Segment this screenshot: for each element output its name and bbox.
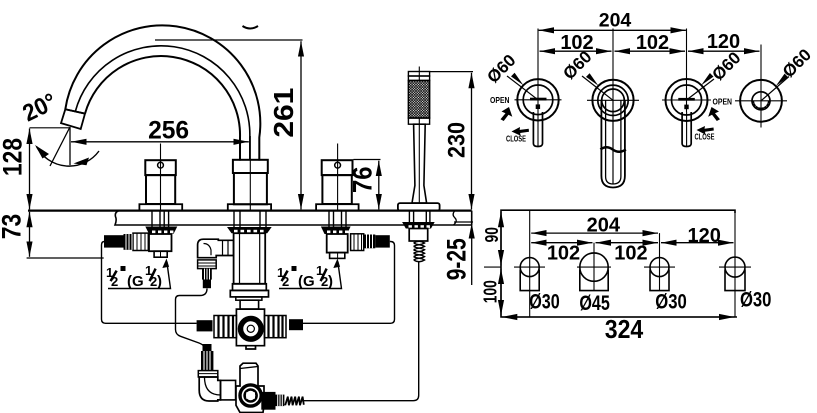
ext line c3 (686, 29, 688, 113)
right valve body below deck (327, 234, 348, 253)
spout arc inner (85, 56, 240, 161)
c1 centerline vertical (529, 210, 531, 317)
dim 204 bottom view (531, 232, 658, 234)
Ø60 leader 3 (687, 48, 745, 100)
ext line c1 (537, 29, 539, 113)
mixing tee left black block (197, 320, 213, 331)
small breve mark above spout (243, 26, 259, 29)
spout column flange (228, 204, 271, 210)
dim 256 line (71, 141, 249, 143)
wire: right supply down to tee right (303, 242, 395, 324)
left valve knurled collar (124, 234, 134, 250)
spout column side elbow (198, 239, 234, 258)
dim 102 102 120 line (540, 50, 612, 52)
centerline tick left of rect (484, 266, 501, 268)
dim 73 line (29, 212, 31, 257)
hand shower handle (412, 124, 427, 203)
Ø60 leader 1 (483, 51, 538, 100)
svg-text:Ø30: Ø30 (655, 290, 687, 313)
hand shower head cap bands (408, 72, 429, 77)
dim 76 line (378, 161, 380, 210)
dim 76 extension line (354, 159, 381, 161)
left handle flange (139, 204, 182, 210)
spout column centerline (249, 136, 251, 211)
mixing tee left nut group (214, 316, 236, 338)
right handle body (322, 175, 351, 204)
dim 204 top line (539, 29, 686, 31)
below-deck shank lines: left handle (152, 211, 169, 227)
spout column lower body below deck (234, 233, 266, 284)
svg-text:120: 120 (688, 225, 721, 247)
label underline and leader (108, 262, 171, 289)
nozzle tip vertical extension (69, 127, 71, 165)
OPEN CLOSE marks c1 (490, 95, 529, 144)
svg-text:): ) (157, 273, 162, 290)
spout arc middle line (75, 46, 250, 160)
svg-text:120: 120 (707, 31, 740, 53)
svg-text:Ø45: Ø45 (579, 292, 610, 315)
hole c1 (514, 258, 545, 291)
right supply fitting (black) (375, 235, 390, 247)
svg-text:100: 100 (481, 280, 501, 303)
svg-text:CLOSE: CLOSE (506, 134, 526, 144)
circle c3 (right handle top view) (662, 79, 711, 147)
mixing tee right nut group (265, 316, 287, 338)
below-deck shank lines: right handle (329, 211, 346, 227)
svg-text:102: 102 (560, 32, 593, 54)
elbow knurled nipple (202, 269, 212, 280)
left handle cap (145, 160, 176, 175)
nozzle joint line (65, 109, 85, 113)
dim 230 line (471, 73, 473, 210)
svg-text:230: 230 (444, 122, 471, 158)
wire: elbow nipple to diverter nipple (176, 289, 208, 348)
diverter elbow (198, 377, 220, 401)
svg-text:Ø30: Ø30 (529, 290, 560, 313)
svg-text:102: 102 (614, 243, 647, 265)
diverter hex block (221, 380, 236, 400)
svg-text:(G: (G (127, 273, 144, 290)
dim 90 arrows on left edge (500, 212, 502, 266)
dim 9-25 line with up arrow (471, 223, 473, 285)
c4 gear teeth (751, 101, 770, 111)
left valve body below deck (149, 234, 172, 251)
diverter outlet threads (276, 395, 285, 407)
diverter valve circle (240, 385, 261, 406)
circle c4 (hand shower holder top view) (735, 80, 787, 122)
diverter outlet black block (261, 392, 275, 410)
spout column body (234, 173, 267, 204)
circle c2 (spout top view) (587, 80, 639, 188)
dim 100 arrows on left edge (500, 269, 502, 316)
spout supply tube to tee (240, 300, 259, 309)
diverter elbow hex nut (198, 371, 218, 377)
mixing tee body (236, 309, 264, 349)
diverter feed knurled nipple (201, 351, 213, 370)
svg-text:102: 102 (547, 243, 580, 265)
below-deck shank lines: hand shower (409, 211, 430, 222)
elbow hex nut (198, 260, 217, 269)
dim 261 extension line (155, 39, 303, 41)
svg-text:Ø30: Ø30 (740, 288, 772, 311)
right valve bottom port (330, 253, 345, 259)
hand shower knurled head (408, 81, 429, 119)
circle c1 (left handle top view) (515, 79, 562, 146)
OPEN CLOSE marks c3 (695, 97, 733, 142)
svg-text:73: 73 (0, 214, 27, 240)
serrated mounting nut: right handle (321, 227, 351, 235)
ext line c2 (612, 29, 614, 185)
hand shower escutcheon (398, 203, 440, 211)
dim 102 102 bottom view (531, 242, 592, 244)
svg-text:102: 102 (636, 32, 669, 54)
svg-text:128: 128 (0, 138, 28, 176)
svg-text:256: 256 (148, 117, 189, 145)
svg-text:324: 324 (605, 314, 644, 344)
hand shower centerline (418, 67, 420, 204)
dim 128 line (29, 129, 31, 210)
serrated mounting nut: hand shower (402, 222, 435, 229)
serrated mounting nut: spout column (227, 227, 272, 233)
hand shower lower block below deck (409, 229, 428, 242)
rect right edge through c4 (734, 210, 736, 317)
mixing tee ball circle (241, 319, 262, 340)
ext line c4 (760, 45, 762, 128)
svg-text:204: 204 (599, 9, 632, 31)
right handle knob circle (335, 162, 341, 168)
spout arc outer (65, 25, 260, 160)
svg-text:90: 90 (482, 227, 502, 243)
deck top surface line (28, 210, 472, 212)
below-deck shank lines: spout column (234, 211, 266, 227)
diverter body (236, 363, 264, 412)
hole c3 (644, 258, 675, 291)
left handle knob circle (158, 162, 164, 168)
c2 tube break squiggle (600, 147, 626, 152)
Ø60 leader 4 (761, 45, 815, 101)
layout rectangle (501, 210, 737, 317)
svg-text:): ) (328, 273, 333, 290)
wire: diverter hose to hand shower shank (302, 262, 419, 401)
elbow nipple black tip (203, 280, 211, 289)
svg-text:76: 76 (348, 167, 378, 194)
svg-text:9-25: 9-25 (442, 238, 472, 280)
serrated mounting nut: left handle (145, 227, 177, 235)
c2 spout tube (601, 100, 625, 187)
hand shower threaded coil (414, 241, 425, 261)
dim 261 line (300, 41, 302, 209)
spout nozzle (61, 109, 85, 129)
20 degree angle arc with arrows (37, 147, 100, 167)
hole c4 (719, 257, 751, 291)
hole c2 (577, 253, 611, 291)
half inch label 1 (106, 259, 171, 291)
diverter corrugated hose (285, 397, 304, 406)
Ø60 leader 2 (559, 47, 613, 100)
spout column tube stubs (239, 155, 241, 160)
dim 120 bottom view (661, 242, 734, 244)
left supply fitting (black) (104, 235, 124, 247)
svg-text:OPEN: OPEN (490, 95, 510, 105)
dim 128 extension line (30, 127, 71, 129)
dim 73 bottom reference line (27, 257, 104, 259)
right valve side hex adapter (351, 234, 364, 251)
mixing tee right black block (289, 319, 303, 330)
hand shower neck band (408, 118, 429, 124)
svg-text:261: 261 (268, 88, 299, 138)
left valve bottom port (154, 251, 167, 257)
left handle body (146, 175, 175, 204)
dim 9-25 bottom tick (454, 221, 473, 223)
deck break squiggle (453, 211, 456, 225)
diverter feed nipple black tip (203, 344, 212, 351)
c1 lever (533, 112, 542, 147)
deck slab right edge (471, 211, 473, 225)
right handle flange (316, 204, 359, 210)
dim 324 (502, 316, 735, 318)
svg-text:OPEN: OPEN (713, 97, 733, 107)
nozzle stream direction line (50, 128, 70, 167)
svg-text:(G: (G (298, 273, 315, 290)
c3 lever (682, 112, 691, 147)
svg-text:204: 204 (587, 214, 621, 236)
left valve side hex adapter (133, 233, 148, 250)
left handle centerline (160, 144, 162, 211)
c2 centerline vertical (593, 243, 595, 290)
c3 centerline vertical (659, 233, 661, 290)
spout column flange rings below deck (233, 284, 267, 291)
right handle cap (322, 160, 353, 175)
right valve knurled collar (364, 235, 376, 249)
wire: left supply to tee left (102, 242, 197, 324)
deck slab bottom line (115, 211, 472, 225)
right handle centerline (337, 144, 339, 211)
dim 230 extension line (430, 71, 473, 73)
half inch label 2 (277, 259, 342, 291)
spout column cap (233, 160, 268, 173)
